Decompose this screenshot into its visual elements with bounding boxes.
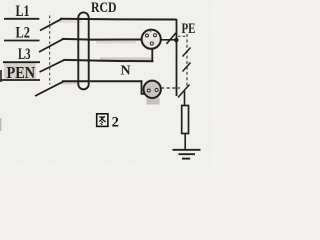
PE isolation slash (socket 1) xyxy=(167,33,177,44)
socket 1 (top load) xyxy=(142,30,161,49)
break slash 1 xyxy=(183,48,191,57)
switch blade L3 xyxy=(40,60,65,72)
socket 2 pin holes xyxy=(147,89,150,92)
caption glyph 图 (hand-drawn) xyxy=(97,114,108,127)
ground symbol xyxy=(173,149,201,151)
switch blade PEN xyxy=(35,81,64,96)
socket 2 feed from N corner xyxy=(142,81,146,94)
earth resistance resistor body xyxy=(182,106,189,134)
N bus wire xyxy=(62,80,143,82)
svg-text:2: 2 xyxy=(112,114,119,130)
L2 supply stub wire xyxy=(4,40,40,42)
socket 2 (bottom load) xyxy=(144,81,161,98)
scan smudge behind PEN label xyxy=(4,63,36,81)
junction node xyxy=(174,38,179,43)
break slash 2 xyxy=(183,63,191,72)
scan smudge above L3 bus line xyxy=(100,58,152,62)
circuit schematic: TN-C system with RCD, figure 2 xyxy=(0,0,212,167)
break slash 3 xyxy=(178,85,190,98)
switch blade L2 xyxy=(39,39,64,52)
socket 1 pin holes xyxy=(146,34,149,37)
dashed link from junction xyxy=(178,35,187,37)
left edge scan mark xyxy=(0,70,2,82)
socket 1 riser to L3 xyxy=(151,48,153,61)
socket 1 PE lead xyxy=(161,39,176,41)
scan smudge left of oval bottom xyxy=(60,82,78,85)
L3 bus wire xyxy=(64,60,154,61)
scan smudge below bottom socket xyxy=(147,98,160,105)
L1 supply stub wire xyxy=(4,18,39,20)
earthing conductor to resistor xyxy=(184,91,186,106)
switch linkage (dashed) xyxy=(49,16,51,85)
left edge faint mark xyxy=(0,118,1,131)
PE dashed conductor xyxy=(186,34,188,86)
L1 bus wire xyxy=(60,18,177,21)
PEN supply stub wire xyxy=(1,79,41,81)
resistor bottom lead xyxy=(184,134,186,150)
scan smudge under L2 bus xyxy=(96,41,136,44)
L3 supply stub wire xyxy=(3,61,40,63)
subtle scan noise overlay xyxy=(0,0,1,1)
PE drop wire from L1 corner xyxy=(176,19,178,96)
L2 bus wire xyxy=(62,38,142,41)
switch blade L1 xyxy=(40,19,62,31)
scan smudge under L1 bus xyxy=(58,20,82,22)
RCD toroid ring xyxy=(78,12,88,89)
socket 2 shading xyxy=(144,91,161,98)
socket 2 PE dashed lead xyxy=(161,87,180,89)
